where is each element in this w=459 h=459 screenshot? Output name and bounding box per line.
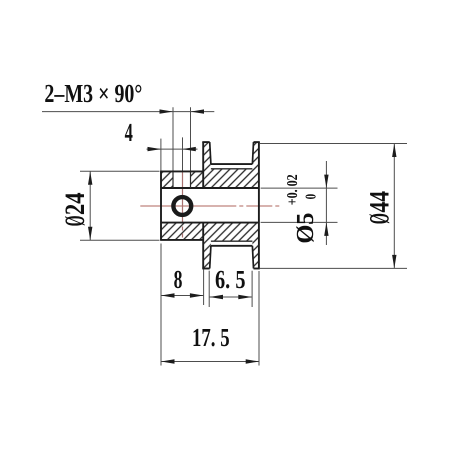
- dimension D5 extension top: [261, 187, 338, 189]
- dimension D44 extension bottom: [260, 267, 407, 269]
- label D44: [364, 191, 395, 224]
- svg-text:17. 5: 17. 5: [192, 323, 230, 352]
- dimension 8 line: [161, 295, 203, 297]
- svg-text:Ø: Ø: [60, 215, 91, 226]
- M3 tapped hole left edge: [172, 171, 174, 188]
- dimension D5 line: [325, 161, 327, 245]
- flange top-left inner slant: [210, 142, 211, 164]
- hatch hub top-left band: [161, 171, 173, 188]
- hub top edge: [160, 170, 203, 172]
- flange bottom-right edge: [254, 268, 260, 270]
- svg-text:8: 8: [174, 265, 183, 294]
- right face: [258, 142, 260, 268]
- wire: M3 centerline extension above hub: [182, 137, 184, 170]
- hub bottom edge: [160, 239, 203, 241]
- hatch flange lower region: [203, 223, 259, 269]
- flange top-right inner slant: [252, 142, 253, 164]
- extension line M3 hole left: [172, 107, 174, 170]
- tooth root line top: [211, 168, 253, 170]
- white tooth gap bottom: [211, 241, 253, 246]
- hatch flange upper region: [203, 142, 259, 188]
- svg-text:0: 0: [304, 194, 320, 200]
- extension line hub left top: [160, 139, 162, 171]
- extension line flange right bottom: [258, 271, 260, 366]
- extension line flange left bottom: [203, 270, 205, 306]
- white tooth gap top: [211, 164, 253, 169]
- dimension 2-M3 x 90 leader line: [42, 111, 214, 113]
- tooth surface top: [211, 163, 253, 165]
- svg-text:2–M3 × 90°: 2–M3 × 90°: [44, 79, 142, 108]
- flange top-right edge: [254, 141, 260, 143]
- dimension D24 extension top: [80, 170, 160, 172]
- hub left face: [160, 171, 162, 240]
- bore top edge: [161, 187, 259, 189]
- svg-text:Ø: Ø: [364, 213, 395, 224]
- extension line tooth left: [208, 271, 210, 307]
- extension line tooth right: [251, 271, 253, 307]
- svg-text:Ø5: Ø5: [292, 213, 319, 244]
- bore bottom edge: [161, 222, 259, 224]
- flange bottom-left edge: [202, 268, 209, 270]
- dimension D44 line: [393, 144, 395, 269]
- extension line M3 hole right: [190, 107, 192, 170]
- extension line hub left bottom: [160, 244, 162, 366]
- label D24: [60, 192, 91, 226]
- dimension D24 extension bottom: [80, 239, 160, 241]
- svg-text:6. 5: 6. 5: [215, 265, 246, 294]
- svg-text:4: 4: [125, 118, 133, 147]
- dimension 17.5 line: [161, 361, 259, 363]
- dimension D44 extension top: [260, 143, 407, 145]
- svg-text:44: 44: [364, 191, 395, 213]
- M3 tapped hole right edge: [190, 171, 192, 188]
- tooth surface bottom: [211, 245, 253, 247]
- M3 hole end view circle ring: [173, 197, 191, 215]
- label D5 +0.02/0: [285, 174, 320, 243]
- red centerline horizontal: [140, 205, 280, 207]
- dimension D5 extension bottom: [261, 221, 338, 223]
- hatch hub bottom band: [161, 223, 203, 240]
- flange top-left edge: [202, 141, 209, 143]
- dimension 4 line: [147, 148, 198, 150]
- dimension 6.5 line: [210, 296, 252, 298]
- tooth root line bottom: [211, 240, 253, 242]
- hatch hub top-right band: [191, 171, 204, 188]
- flange bottom-left inner slant: [210, 246, 211, 269]
- red centerline vertical M3: [182, 171, 184, 238]
- svg-text:24: 24: [60, 192, 91, 215]
- svg-text:+0. 02: +0. 02: [285, 174, 301, 205]
- flange left face: [202, 142, 204, 188]
- flange bottom-right inner slant: [252, 246, 253, 269]
- dimension D24 line: [89, 171, 91, 240]
